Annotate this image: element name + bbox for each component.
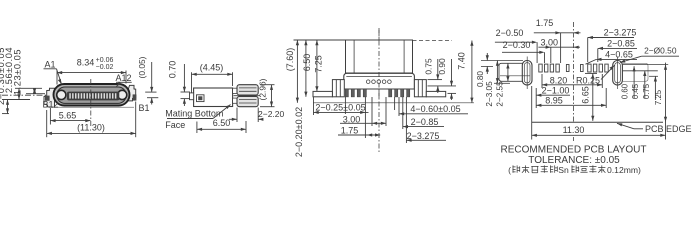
view4 dimension 2-0.85 line [598,47,637,49]
view1 under-shell line between tabs [48,106,134,108]
view3 dimension 7.25 line [316,40,318,91]
svg-text:2−0.85: 2−0.85 [411,117,439,127]
view3 vertical centerline [378,28,380,152]
svg-text:0.80: 0.80 [476,71,485,87]
view4 dimension 0.45 line [644,71,646,98]
svg-text:4−0.60±0.05: 4−0.60±0.05 [410,104,460,114]
view1 right mounting tab [129,85,136,101]
view2 dimension 2-2.20 arrows [229,118,237,120]
view3 shell wall inner lines [353,41,355,73]
view3 left shell leg block [332,80,344,97]
svg-text:0.75: 0.75 [423,58,433,75]
view4 left shell slot pad [522,61,532,86]
svg-text:2−3.275: 2−3.275 [604,27,637,37]
view4 dimension 0.80 line [481,60,523,62]
view4 dimension 2-0.50 line [495,41,534,43]
svg-text:8.34: 8.34 [77,58,95,68]
svg-text:2−0.85: 2−0.85 [607,38,635,48]
view3 dimension 3.00 line [340,122,386,124]
svg-text:8.95: 8.95 [545,95,563,105]
view3 dimension 0.90 line [451,59,453,86]
view4 dimension 2-3.275 line [588,37,634,39]
view2 dimension 6.50 line [197,128,246,130]
view4 pcb edge leader [634,128,643,130]
view4 inner small pads near center [566,65,569,72]
view1 right tab solder hole [133,94,137,100]
svg-text:1.75: 1.75 [341,126,359,136]
view1 dimension 5.65 line [50,120,90,122]
view4 dimension 2-2.55 line [507,63,509,81]
svg-text:Face: Face [165,120,185,130]
svg-text:A1: A1 [44,60,55,70]
svg-text:B12: B12 [42,99,58,109]
view3 top dashed reference line [413,40,453,42]
view4 vertical centerline [573,22,575,122]
view4 dimension 2-1.00 line [536,94,570,96]
view1 right shell cavity circle [118,90,127,99]
svg-text:6.50: 6.50 [302,54,312,72]
svg-text:RECOMMENDED PCB LAYOUT: RECOMMENDED PCB LAYOUT [501,144,647,155]
svg-text:2−2.55: 2−2.55 [496,81,505,107]
view4 R0.25 leader [601,65,615,79]
view2 left solder tab tip [190,93,194,100]
view4 pcb edge line [532,121,664,123]
svg-text:2−0.25±0.05: 2−0.25±0.05 [315,102,365,112]
svg-text:0.60: 0.60 [620,83,629,99]
svg-text:2−3.05: 2−3.05 [485,81,494,107]
svg-text:0.90: 0.90 [437,58,447,75]
svg-text:PCB EDGE: PCB EDGE [645,124,692,134]
view3 left support arm [313,91,332,96]
view2 mating bottom beam [237,96,258,106]
view1 shell outer stadium [54,84,130,106]
svg-text:7.40: 7.40 [456,52,466,70]
view4 dimension 8.20 line [542,84,602,86]
view1 left shell cavity circle [57,90,66,99]
view3 dimension 0.75 line [437,59,439,80]
svg-text:Sn: Sn [558,165,569,175]
svg-text:7.25: 7.25 [654,89,663,105]
view4 dimension 2-diam0.50 leader [642,55,679,57]
svg-text:0.70: 0.70 [168,61,178,79]
svg-text:3.00: 3.00 [343,114,361,124]
view4 dimension 0.60 line [633,66,635,98]
svg-text:R0.25: R0.25 [576,75,600,85]
svg-text:7.25: 7.25 [314,55,324,73]
svg-text:5.65: 5.65 [59,111,77,121]
view4 right reference lines [622,64,668,66]
svg-text:2−0.50: 2−0.50 [496,28,524,38]
view2 center tongue line [234,95,260,97]
view3 right shell leg block [414,80,426,97]
svg-text:3.00: 3.00 [541,38,559,48]
view4 left contact pads [539,64,542,72]
svg-text:0.12mm): 0.12mm) [607,165,641,175]
view2 dimension 0.70 line [183,64,185,92]
view3 dimension 2-3.275 line [406,139,446,141]
view3 dimension 2-0.85 line [403,126,444,128]
svg-text:B1: B1 [138,103,149,113]
svg-text:2−0.20±0.02: 2−0.20±0.02 [294,107,304,157]
view2 dimension (4.45) line [192,73,233,75]
svg-text:6.65: 6.65 [580,86,590,104]
view4 dimension 4-0.65 line [596,58,637,60]
view3 centerline overlay through shell [378,30,380,100]
svg-text:+0.06: +0.06 [96,57,114,64]
view4 dimension 3.00 line [538,46,580,48]
view4 right shell slot pad [613,61,623,86]
svg-text:(2.96): (2.96) [258,78,268,100]
view1 dimension 8.34 line with arrows [57,72,126,74]
svg-text:2−1.00: 2−1.00 [542,85,570,95]
view4 right phantom connector outline [623,63,648,81]
view4 dimension 6.65 line [592,73,594,121]
view2 tab hole detail [197,95,205,102]
view4 dimension 2-3.05 line [496,61,498,84]
view2 mating face leader [167,118,213,120]
svg-text:(11.30): (11.30) [77,122,105,132]
svg-text:2−0.30: 2−0.30 [503,40,531,50]
view1 shell inner stadium [57,87,126,103]
view4 dimension 11.30 line [532,134,666,136]
view4 left phantom connector outline [499,63,524,81]
view3 shell rectangle [346,40,413,73]
view1 dimension 2-0.30 extension+arrow [7,100,9,114]
view1 contact pins row [69,93,71,98]
svg-text:1.75: 1.75 [536,18,554,28]
view2 mating top beam [237,85,258,95]
svg-text:(4.45): (4.45) [200,63,224,73]
svg-text:A12: A12 [115,73,131,83]
view1 dimension 1.23 line [34,88,36,93]
view3 dimension 7.40 line [471,41,473,103]
view3 pcb reference line [313,102,474,104]
view3 dimension 1.75 line [338,134,380,136]
view1 dimension (0.05) lines and arrows [145,91,156,93]
view4 dimension 8.95 line [536,104,606,106]
svg-text:4−0.65: 4−0.65 [605,49,633,59]
view3 bottom contact legs [345,89,348,97]
view2 body rectangle [194,88,233,107]
view4 dimension 1.75 line [534,32,581,34]
svg-text:0.45: 0.45 [631,83,640,99]
svg-text:(0.05): (0.05) [137,56,147,78]
view1 dimension 2.56 line [18,88,20,99]
view1 left mounting tab [44,88,55,107]
svg-text:6.50: 6.50 [213,118,231,128]
svg-text:8.20: 8.20 [550,75,568,85]
view1 horizontal centerline [2,94,55,96]
view4 dimension 2-0.30 line [502,51,541,53]
view1 center contact slot [67,92,119,101]
svg-text:(: ( [508,165,511,175]
view1 left tab solder hole [45,96,50,101]
view1 vertical centerline [90,79,92,126]
svg-text:11.30: 11.30 [563,125,585,135]
svg-text:1.23±0.05: 1.23±0.05 [13,49,23,95]
view3 insulator base bar [344,73,415,89]
svg-text:(7.60): (7.60) [285,48,295,72]
view4 left phantom inner line [500,75,530,77]
view3 dimension 6.50 line [305,40,307,97]
view4 dimension 0.75 line [654,76,656,100]
view3 dimension 2-0.25 line [314,111,369,113]
svg-text:2−Ø0.50: 2−Ø0.50 [644,46,677,56]
view3 base bar inner line [346,76,412,78]
view2 dimension (2.96) line [271,85,273,107]
view4 right contact pads [588,64,591,72]
view4 dimension 7.25 line [665,63,667,140]
svg-text:2−2.20: 2−2.20 [258,109,285,119]
svg-text:0.75: 0.75 [642,83,651,99]
view3 base bar 5 holes [366,80,370,84]
view1 dimension (11.30) line [47,132,136,134]
view3 dimension 4-0.60 line [399,113,468,115]
view3 right support arm [426,91,445,96]
view3 dimension (7.60) line [296,40,298,103]
svg-text:−0.02: −0.02 [96,64,114,71]
view2 beam link steps [233,88,238,93]
